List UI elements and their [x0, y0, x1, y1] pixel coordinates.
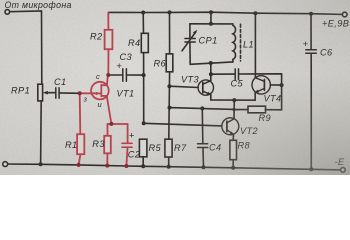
node rail tank — [209, 10, 213, 14]
wire R9 left lead — [234, 109, 248, 111]
wire VT3 base — [169, 86, 198, 87]
node C3 R4 R5 — [142, 73, 146, 77]
wire R6 R7 vertical chain — [169, 12, 171, 54]
wire tank left side — [189, 24, 191, 38]
wire C6 vertical — [310, 14, 312, 49]
wire VT4 base branch down to R9 — [281, 85, 283, 110]
wire top supply rail — [108, 12, 344, 14]
wire RP1 wiper arrow — [45, 92, 55, 94]
node VT4 base — [280, 83, 284, 87]
wire R2 vertical — [107, 12, 109, 29]
wire tank top side — [190, 23, 233, 25]
capacitor C2 — [122, 143, 132, 147]
potentiometer RP1 — [38, 84, 43, 101]
node tank bottom — [209, 61, 213, 65]
transistor VT4 — [252, 76, 270, 94]
terminal +E supply — [342, 12, 347, 17]
wire y108 bias line to VT2 collector — [170, 108, 235, 110]
node bottom C2 — [124, 164, 128, 168]
inductor L1 core dashed — [240, 24, 242, 61]
resistor R6 — [166, 54, 173, 72]
wire R8 to bottom rail — [232, 160, 234, 168]
node rail R6 — [168, 10, 172, 14]
node VT2 collector R9 — [232, 108, 235, 111]
paper texture overlay — [0, 0, 350, 175]
resistor R8 — [230, 140, 237, 159]
node rail C6 — [309, 12, 313, 16]
wire tank bottom side — [190, 62, 233, 64]
wire VT4 emitter to common line — [234, 92, 255, 100]
node bottom R3 — [105, 164, 109, 168]
node bottom RP1 — [39, 162, 43, 166]
resistor R3 — [104, 136, 111, 154]
wire C4 vertical — [201, 108, 204, 143]
node source R3 C2 — [109, 122, 113, 126]
resistor R5 — [139, 139, 147, 157]
wire VT3 emitter to common line — [211, 95, 235, 101]
node tank top — [209, 22, 213, 26]
node bottom R8 — [231, 166, 235, 170]
capacitor C6 — [306, 50, 317, 53]
wire R1 vertical — [79, 93, 82, 134]
node VT2 base tap — [142, 121, 146, 125]
wire microphone input to RP1 — [10, 11, 42, 84]
node C5 tap — [209, 72, 213, 76]
node bottom C6 — [309, 167, 313, 171]
wire VT4 collector from rail — [254, 13, 256, 77]
node bottom R1 — [77, 163, 81, 167]
wire VT4 base lead — [270, 84, 281, 86]
inductor L1 — [233, 24, 236, 62]
node y108 R6R7 — [168, 106, 172, 110]
capacitor C1 — [56, 88, 59, 98]
wire VT3 collector vertical — [210, 63, 212, 81]
wire VT2 emitter to R8 — [232, 135, 234, 141]
transistor VT3 — [198, 80, 213, 95]
wire C2 vertical — [127, 124, 129, 143]
wire C5 right lead to VT4 base branch — [239, 74, 282, 85]
node rail VT4 collector — [253, 11, 257, 15]
node bottom R5 — [141, 164, 145, 168]
transistor VT1 (field-effect) — [80, 75, 112, 124]
wire source node horizontal — [108, 123, 128, 125]
resistor R1 — [77, 134, 84, 154]
wire R3 vertical — [107, 124, 109, 136]
node emitter common — [232, 98, 236, 102]
capacitor C3 — [123, 69, 127, 82]
terminal microphone bottom — [3, 162, 8, 167]
red highlighted first stage — [77, 12, 132, 166]
wire VT2 base line — [144, 123, 222, 126]
node rail R4 — [141, 11, 145, 15]
node drain C3 — [106, 73, 110, 77]
resistor R4 — [141, 33, 148, 52]
capacitor C4 — [198, 144, 208, 148]
wire bottom supply rail — [5, 164, 343, 170]
node y108 C4 — [200, 106, 204, 110]
variable capacitor CP1 — [185, 39, 195, 43]
node bottom C4 — [202, 165, 206, 169]
wire R9 right lead — [266, 109, 282, 111]
node bottom R7 — [167, 165, 171, 169]
terminal -E supply — [341, 168, 346, 173]
wire C3 right lead to R4/R5 node — [127, 74, 144, 76]
terminal microphone top — [5, 10, 10, 15]
node VT3 base R6 — [167, 84, 171, 88]
resistor R9 — [248, 106, 266, 113]
transistor VT2 — [222, 118, 239, 135]
wire tank feed from rail — [210, 12, 212, 23]
wire C5 left lead — [211, 73, 235, 75]
capacitor C5 — [235, 69, 238, 80]
resistor R2 — [105, 30, 113, 49]
node gate R1 — [78, 91, 82, 95]
wire C1 to gate node — [59, 92, 79, 94]
paper background — [0, 0, 350, 175]
resistor R7 — [165, 139, 172, 157]
wire RP1 lower to bottom rail — [40, 101, 43, 164]
wire R4 R5 vertical chain — [142, 13, 144, 34]
wire C3 left lead — [108, 74, 122, 76]
wire VT2 collector — [233, 100, 235, 118]
